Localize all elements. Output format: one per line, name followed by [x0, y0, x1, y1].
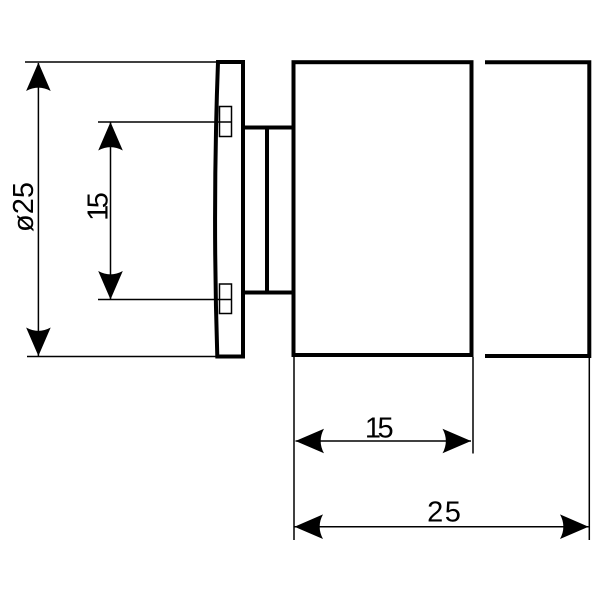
extension line rear right	[588, 358, 590, 540]
svg-text:15: 15	[365, 413, 394, 445]
extension line top screw centre	[98, 121, 232, 123]
svg-text:ø25: ø25	[8, 182, 40, 232]
extension line cylinder left	[293, 357, 295, 540]
extension line cylinder right	[472, 357, 474, 454]
knob body cylinder	[294, 62, 472, 355]
knob rear section	[485, 62, 589, 356]
dim15 horizontal arrow left	[296, 429, 325, 454]
dim25 horizontal dimension line	[295, 526, 589, 528]
dia25 dimension line	[37, 63, 39, 356]
dim15 horizontal arrow right	[443, 429, 472, 454]
extension line bottom screw centre	[98, 299, 232, 301]
svg-text:25: 25	[427, 497, 461, 529]
stem bottom edge	[242, 291, 296, 295]
dia25 arrow down	[26, 328, 51, 357]
flange plate outline	[215, 62, 243, 357]
extension line bottom for dia25	[27, 356, 217, 358]
screw block bottom	[220, 284, 232, 314]
dim15 vertical arrow down	[98, 271, 123, 300]
dim25 arrow right	[560, 514, 589, 539]
dim15 vertical dimension line	[110, 122, 112, 300]
dia25 arrow up	[26, 63, 51, 92]
screw block top	[220, 107, 232, 137]
dim15 vertical arrow up	[98, 122, 123, 151]
extension line top for dia25	[25, 61, 218, 63]
svg-text:15: 15	[83, 192, 115, 221]
stem top edge	[242, 126, 296, 130]
stem divider line	[265, 126, 269, 295]
dim15 horizontal dimension line	[296, 440, 472, 442]
dim25 arrow left	[295, 514, 324, 539]
